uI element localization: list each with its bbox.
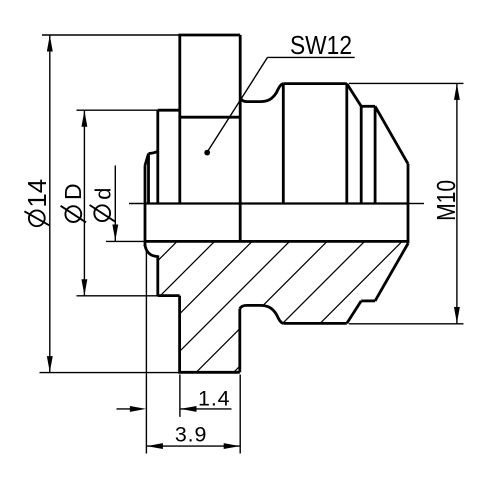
dimension M10 arrow top	[454, 84, 460, 100]
dimension 1.4 line left segment	[117, 408, 134, 410]
svg-text:D: D	[60, 183, 86, 200]
collar top edge	[361, 105, 375, 108]
dimension ØD text	[60, 183, 86, 222]
svg-text:3.9: 3.9	[175, 422, 207, 446]
thread bottom edge	[283, 322, 347, 325]
bottom groove curve	[240, 305, 283, 323]
leader SW12 diagonal	[208, 57, 268, 151]
dimension ØD extension line bottom	[77, 295, 159, 297]
bottom edge	[178, 371, 240, 374]
dimension M10 extension line top	[349, 82, 464, 84]
dimension 1.4 extension line right	[179, 375, 181, 417]
dimension 3.9 line	[146, 445, 240, 447]
bottom cone	[375, 244, 408, 301]
collar edge	[360, 106, 363, 203]
svg-text:14: 14	[24, 179, 52, 208]
centerline (axis)	[129, 203, 424, 205]
dimension 3.9 extension line right	[239, 375, 241, 454]
hex top edge	[178, 34, 240, 37]
dimension 3.9 arrow right	[224, 443, 240, 449]
svg-text:d: d	[91, 188, 116, 200]
hatching of section	[39, 230, 452, 380]
dimension ØD line	[83, 110, 85, 296]
dimension 1.4 arrow left	[130, 406, 146, 412]
dimension M10 extension line bottom	[349, 323, 464, 325]
cone start edge	[374, 106, 377, 203]
dimension Ød line	[114, 166, 116, 242]
svg-text:M10: M10	[431, 180, 461, 221]
thread top edge	[283, 82, 347, 85]
top groove curve	[240, 84, 283, 102]
dimension 3.9 arrow left	[147, 443, 163, 449]
dimension 1.4 arrow right	[180, 406, 196, 412]
dimension ØD arrow top	[81, 111, 87, 127]
bottom step edge	[158, 294, 180, 297]
thread end face	[345, 84, 348, 204]
D-section top edge	[158, 109, 180, 112]
hex right edge	[239, 35, 242, 242]
dimension 1.4 extension line left	[145, 247, 147, 454]
leader SW12 dot	[204, 150, 210, 156]
shoulder face	[156, 110, 159, 203]
dimension Ø14 arrow top	[47, 35, 53, 51]
dimension ØD extension line top	[77, 109, 162, 111]
dimension Ø14 arrow bottom	[47, 356, 53, 372]
dimension ØD arrow bottom	[81, 279, 87, 295]
thread top chamfer	[347, 84, 361, 107]
dimension Ød text	[90, 188, 116, 222]
nose top arc	[149, 151, 158, 153]
dimension M10 line	[456, 83, 458, 323]
thread bottom chamfer	[347, 301, 361, 324]
part outline: nose tip face	[144, 166, 147, 247]
bottom hex right edge	[238, 309, 241, 373]
svg-text:SW12: SW12	[290, 30, 352, 60]
dimension Ød extension line (bore)	[106, 240, 146, 242]
hex facet line	[180, 116, 240, 119]
nose chamfer edge vertical	[147, 154, 150, 204]
nose top chamfer	[145, 154, 149, 166]
dimension Ø14 extension line top	[42, 34, 180, 36]
top cone	[375, 106, 408, 164]
right end face	[407, 164, 410, 244]
collar bottom edge	[361, 299, 375, 302]
dimension M10 arrow bottom	[454, 307, 460, 323]
thread start edge	[282, 84, 285, 204]
flange left edge section	[178, 296, 181, 373]
dimension Ø14 extension line bottom	[40, 372, 180, 374]
svg-text:1.4: 1.4	[198, 386, 230, 410]
leader SW12 underline	[268, 56, 355, 58]
dimension Ø14 text	[24, 179, 52, 226]
dimension 1.4 line right segment	[180, 408, 232, 410]
dimension Ød arrow	[112, 225, 118, 241]
bore line	[145, 240, 408, 243]
bottom nose profile	[145, 245, 158, 296]
dimension Ø14 line	[49, 35, 51, 373]
hex left edge	[178, 35, 181, 204]
